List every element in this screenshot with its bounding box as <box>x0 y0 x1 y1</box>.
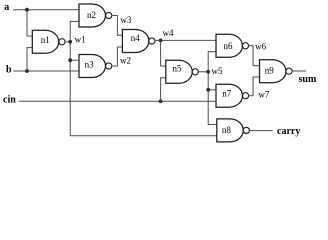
junction dot w1 at n3 <box>68 58 72 62</box>
wire w3 n2 output to n4 top input <box>112 16 123 36</box>
wire w4 n4 output to n6 top input <box>155 39 216 41</box>
svg-text:w3: w3 <box>120 15 131 25</box>
nand gate n3 <box>79 55 112 78</box>
junction dot w5 output <box>206 70 210 74</box>
nand gate n1 <box>32 30 65 53</box>
wire carry from n8 output <box>250 130 273 132</box>
junction dot w4 <box>159 39 163 43</box>
nand gate n8 <box>217 119 250 142</box>
nand gate n6 <box>216 34 249 57</box>
svg-text:carry: carry <box>277 126 300 137</box>
svg-text:w7: w7 <box>258 90 269 100</box>
junction dot on a <box>25 8 29 12</box>
wire w1 vertical trunk <box>70 21 217 135</box>
wire w1 from n1 output <box>65 41 70 43</box>
svg-text:n3: n3 <box>85 60 95 70</box>
svg-text:w4: w4 <box>163 28 174 38</box>
wire w7 n7 output to n9 bottom input <box>249 77 260 96</box>
svg-text:w1: w1 <box>75 34 86 44</box>
wire w2 n3 output to n4 bottom input <box>112 47 123 66</box>
wire w6 n6 output to n9 top input <box>249 46 260 66</box>
nand gate n9 <box>260 60 293 83</box>
wire w5 from n5 output <box>199 71 209 73</box>
nand gate n5 <box>166 60 199 83</box>
wire w5 vertical trunk <box>208 52 217 125</box>
wire cin to n7 bottom input <box>19 100 216 102</box>
nand gate n2 <box>79 4 112 27</box>
junction dot w5 at n7 <box>206 88 210 92</box>
svg-text:cin: cin <box>3 95 16 106</box>
wire w5 stub to n7 top input <box>208 89 216 91</box>
wire sum from n9 output <box>292 70 305 72</box>
wire a to n2 top input <box>14 9 80 11</box>
wire w1 stub to n2 bottom input <box>70 20 79 22</box>
svg-text:w2: w2 <box>120 56 131 66</box>
junction dot on cin <box>159 99 163 103</box>
wire a branch down to n1 top input <box>27 10 32 36</box>
svg-text:w6: w6 <box>255 41 266 51</box>
wire w5 stub to n6 bottom input <box>208 51 216 53</box>
wire b branch up to n1 bottom input <box>27 48 32 71</box>
nand gate n4 <box>122 30 154 53</box>
wire w1 stub to n3 top input <box>70 59 79 61</box>
svg-text:a: a <box>4 2 9 13</box>
svg-text:n2: n2 <box>87 10 96 20</box>
svg-text:n5: n5 <box>173 64 183 74</box>
svg-text:n8: n8 <box>222 125 232 135</box>
svg-text:b: b <box>6 64 12 75</box>
svg-text:n1: n1 <box>41 35 50 45</box>
svg-text:n4: n4 <box>131 33 141 43</box>
svg-text:n9: n9 <box>265 65 275 75</box>
svg-text:n7: n7 <box>222 89 232 99</box>
wire b to n3 bottom input <box>14 70 80 72</box>
wire w4 drop to n5 top input <box>161 40 166 66</box>
wire cin riser to n5 bottom input <box>161 78 166 102</box>
svg-text:n6: n6 <box>224 41 234 51</box>
junction dot w1 output <box>68 40 72 44</box>
nand gate n7 <box>216 84 249 107</box>
junction dot on b <box>25 69 29 73</box>
svg-text:sum: sum <box>299 74 317 85</box>
svg-text:w5: w5 <box>212 66 223 76</box>
